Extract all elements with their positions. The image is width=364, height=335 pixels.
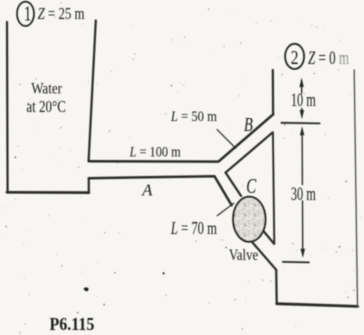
- water surface tick in reservoir: [281, 122, 319, 125]
- svg-text:P6.115: P6.115: [50, 314, 95, 334]
- reservoir bottom: [277, 304, 358, 307]
- arrowhead down of 10 m dimension: [300, 110, 304, 119]
- svg-text:L = 50 m: L = 50 m: [170, 108, 217, 124]
- ink blot artifact: [84, 287, 89, 291]
- svg-text:Water: Water: [31, 80, 62, 98]
- svg-text:B: B: [244, 113, 253, 136]
- branch wedge: pipe B lower edge: [226, 132, 273, 172]
- pipe A bottom edge continuing as pipe C lower edge: [89, 176, 232, 205]
- node 1 circle: [17, 2, 34, 26]
- dimension 30 m shaft lower part: [302, 201, 304, 251]
- svg-text:at 20°C: at 20°C: [26, 97, 66, 116]
- arrowhead down of 30 m dimension: [301, 249, 306, 258]
- arrowhead up of 10 m dimension: [299, 78, 303, 87]
- svg-text:30 m: 30 m: [291, 184, 316, 204]
- dimension tick below 30 m arrow: [283, 261, 309, 264]
- dimension 10 m shaft lower part: [301, 109, 303, 114]
- dimension 10 m shaft upper part: [301, 81, 303, 94]
- svg-text:1: 1: [24, 2, 32, 25]
- svg-text:Valve: Valve: [229, 247, 258, 265]
- leader line for L = 50 m label: [217, 130, 236, 149]
- svg-text:L = 70 m: L = 70 m: [170, 219, 217, 239]
- stray dot artifact: [163, 272, 165, 274]
- node 2 circle: [285, 44, 304, 69]
- dimension 30 m shaft upper part: [301, 133, 303, 185]
- svg-text:2: 2: [291, 46, 299, 68]
- svg-text:A: A: [141, 180, 153, 199]
- reservoir right wall: [354, 70, 357, 306]
- svg-text:L = 100 m: L = 100 m: [129, 143, 181, 159]
- pipe C after valve lower edge: [252, 242, 276, 269]
- reservoir left wall middle segment: [273, 133, 274, 244]
- valve body (stippled ellipse): [233, 197, 265, 242]
- svg-text:C: C: [246, 174, 256, 197]
- reservoir left wall lower segment: [275, 270, 278, 304]
- svg-text:Z = 25 m: Z = 25 m: [38, 5, 85, 23]
- branch wedge: pipe C upper edge: [226, 173, 242, 196]
- tank 1 left wall: [6, 22, 9, 192]
- arrowhead up of 30 m dimension: [300, 126, 304, 135]
- pipe A top edge continuing as pipe B upper edge: [89, 114, 274, 161]
- leader line for L = 70 m label: [217, 203, 234, 215]
- tank 1 right wall: [89, 21, 96, 162]
- reservoir left wall upper segment: [272, 70, 275, 114]
- tank 1 outlet step: [88, 178, 90, 192]
- tank 1 bottom: [7, 191, 89, 194]
- svg-text:10 m: 10 m: [291, 91, 316, 111]
- svg-text:Z = 0 m: Z = 0 m: [308, 49, 349, 69]
- pipe C after valve upper edge: [262, 229, 274, 244]
